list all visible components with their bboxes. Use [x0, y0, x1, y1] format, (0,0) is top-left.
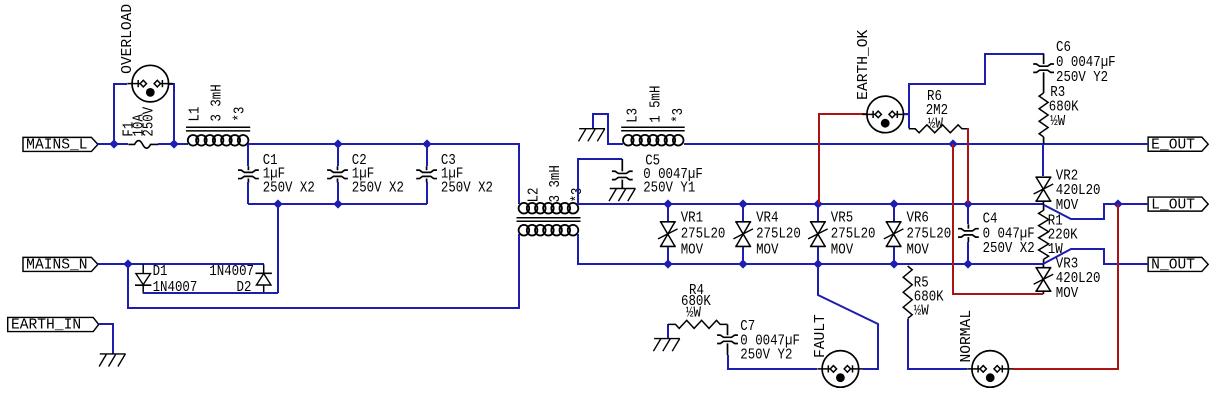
inductor L1 winding: [188, 135, 249, 146]
junction at F1 left: [109, 139, 118, 148]
label C6 rating: [1056, 70, 1108, 86]
junction N rail x817: [813, 259, 822, 268]
svg-text:L2: L2: [527, 187, 543, 202]
svg-text:3 3mH: 3 3mH: [548, 165, 564, 202]
label VR2 type: [1056, 198, 1079, 214]
label R1 rating: [1048, 242, 1063, 258]
junction L rail x968: [963, 199, 972, 208]
svg-text:NORMAL: NORMAL: [959, 310, 975, 363]
label C2 value: [352, 166, 374, 182]
neon lamp FAULT: [817, 351, 863, 388]
label C2: [352, 153, 367, 169]
label VR3 type: [1056, 286, 1079, 302]
label VR5: [831, 211, 853, 227]
svg-text:VR1: VR1: [681, 211, 703, 227]
label F1: [121, 122, 137, 137]
label R5 rating: [914, 303, 929, 319]
junction L rail x743: [738, 199, 747, 208]
svg-text:½W: ½W: [914, 303, 929, 319]
inductor L1 core: [186, 127, 250, 131]
svg-text:L1: L1: [188, 107, 204, 122]
wire to L_OUT: [1044, 204, 1148, 219]
svg-text:250V Y2: 250V Y2: [1056, 70, 1108, 86]
label R1 value: [1048, 227, 1078, 243]
varistor VR5: [808, 204, 828, 264]
inductor L3 winding: [623, 135, 684, 146]
svg-text:D1: D1: [153, 264, 168, 280]
svg-text:VR6: VR6: [907, 211, 929, 227]
label L2 *3: [570, 187, 586, 202]
label C6 value: [1056, 55, 1116, 71]
svg-text:250V X2: 250V X2: [983, 241, 1035, 257]
svg-text:FAULT: FAULT: [813, 314, 829, 358]
diode D1: [135, 264, 151, 293]
wire MAINS_N to L2 bottom: [128, 234, 519, 308]
label VR6: [907, 211, 929, 227]
svg-text:*3: *3: [671, 108, 687, 123]
ground under C5: [609, 189, 636, 202]
svg-text:275L20: 275L20: [681, 227, 726, 243]
label D1 value: [153, 280, 198, 296]
wire EARTH_OK red left: [819, 114, 867, 204]
wire FAULT lamp to N rail: [818, 264, 878, 369]
svg-text:EARTH_IN: EARTH_IN: [11, 318, 81, 334]
wire fuse to L1: [158, 143, 188, 145]
svg-text:275L20: 275L20: [907, 227, 952, 243]
label C1: [263, 153, 278, 169]
svg-text:MOV: MOV: [1056, 198, 1079, 214]
wire R4 to ground: [667, 324, 669, 339]
wire MAINS_L to fuse: [98, 143, 128, 145]
label R1: [1048, 213, 1063, 229]
inductor L3 core: [621, 127, 685, 131]
resistor R4: [668, 320, 727, 328]
label NORMAL: [959, 310, 975, 363]
wire cap rail to diode rail: [277, 204, 279, 293]
fuse F1: [128, 141, 158, 149]
svg-text:250V Y1: 250V Y1: [643, 180, 695, 196]
junction at C2 top: [333, 139, 342, 148]
label R3 rating: [1050, 114, 1065, 130]
svg-text:MOV: MOV: [681, 242, 704, 258]
varistor VR3: [1034, 264, 1054, 294]
junction N rail x893: [889, 259, 898, 268]
label R4 rating: [686, 305, 701, 321]
svg-text:½W: ½W: [1050, 114, 1065, 130]
wire E rail: [684, 143, 1148, 145]
label VR5 type: [831, 242, 854, 258]
label VR6 type: [907, 242, 930, 258]
junction L_OUT red tap: [1113, 199, 1122, 208]
capacitor C4: [958, 204, 979, 264]
label D2 value: [209, 264, 254, 280]
capacitor C2: [327, 144, 348, 204]
diode D2: [256, 264, 272, 293]
port MAINS_L: [23, 137, 98, 153]
svg-text:VR4: VR4: [756, 211, 778, 227]
label C5: [645, 153, 660, 169]
label C7: [740, 319, 755, 335]
junction E rail red tap: [948, 139, 957, 148]
junction at C2 bottom: [333, 199, 342, 208]
junction N rail x743: [738, 259, 747, 268]
label VR1: [681, 211, 703, 227]
label L1 3 3mH: [210, 84, 226, 121]
svg-text:MOV: MOV: [1056, 286, 1079, 302]
svg-text:MAINS_N: MAINS_N: [26, 257, 87, 273]
label VR4: [756, 211, 778, 227]
wire to C6: [909, 54, 1044, 128]
label C7 rating: [740, 348, 792, 364]
svg-text:*3: *3: [233, 107, 249, 122]
wire overload lamp left leg: [114, 84, 127, 144]
resistor R6: [909, 125, 969, 133]
wire EARTH_OK right up: [904, 113, 909, 115]
svg-text:250V Y2: 250V Y2: [740, 348, 792, 364]
wire diode bottom rail: [143, 292, 278, 294]
label VR4 value: [756, 227, 801, 243]
svg-text:0 0047µF: 0 0047µF: [1056, 55, 1116, 71]
wire N rail: [578, 234, 1043, 264]
label VR2 value: [1056, 183, 1101, 199]
svg-text:0 047µF: 0 047µF: [983, 226, 1035, 242]
label L3 1 5mH: [648, 86, 664, 123]
svg-text:EARTH_OK: EARTH_OK: [856, 29, 872, 99]
svg-text:275L20: 275L20: [831, 227, 876, 243]
label L3: [625, 108, 641, 123]
label C3: [441, 153, 456, 169]
svg-text:250V X2: 250V X2: [441, 181, 493, 197]
svg-text:275L20: 275L20: [756, 227, 801, 243]
svg-text:420L20: 420L20: [1056, 183, 1101, 199]
ground at R4: [653, 339, 680, 352]
svg-text:1 5mH: 1 5mH: [648, 86, 664, 123]
label C3 value: [441, 166, 463, 182]
svg-text:L_OUT: L_OUT: [1151, 197, 1195, 213]
junction at C3 top: [422, 139, 431, 148]
label C4 value: [983, 226, 1035, 242]
label L1 *3: [233, 107, 249, 122]
svg-text:3 3mH: 3 3mH: [210, 84, 226, 121]
label L1: [188, 107, 204, 122]
neon lamp NORMAL: [967, 351, 1013, 388]
svg-text:½W: ½W: [686, 305, 701, 321]
label R6 rating: [928, 117, 943, 133]
svg-text:R3: R3: [1050, 85, 1065, 101]
port E_OUT: [1148, 137, 1208, 153]
svg-text:N_OUT: N_OUT: [1151, 257, 1195, 273]
label FAULT: [813, 314, 829, 358]
svg-text:MOV: MOV: [831, 242, 854, 258]
label C3 rating: [441, 181, 493, 197]
junction at F1 right: [169, 139, 178, 148]
svg-text:MAINS_L: MAINS_L: [26, 137, 87, 153]
junction N rail x667: [663, 259, 672, 268]
svg-text:250V X2: 250V X2: [352, 181, 404, 197]
inductor L2 top winding: [519, 203, 579, 214]
label F1 250V: [142, 106, 158, 136]
label C1 rating: [263, 181, 315, 197]
wire EARTH_IN to ground: [99, 324, 113, 354]
port MAINS_N: [23, 257, 98, 273]
svg-text:420L20: 420L20: [1056, 271, 1101, 287]
junction L rail x817: [813, 199, 822, 208]
label C4 rating: [983, 241, 1035, 257]
label D2: [237, 280, 252, 296]
svg-text:VR5: VR5: [831, 211, 853, 227]
label C5 value: [643, 167, 703, 183]
label R6: [927, 89, 942, 105]
capacitor C7: [717, 325, 738, 356]
port N_OUT: [1148, 257, 1208, 273]
label C6: [1056, 40, 1071, 56]
resistor R5: [903, 266, 912, 319]
label VR2: [1056, 169, 1078, 185]
wire NORMAL to L_OUT red: [1013, 204, 1118, 369]
svg-text:680K: 680K: [1049, 100, 1079, 116]
svg-text:1N4007: 1N4007: [209, 264, 254, 280]
svg-text:MOV: MOV: [756, 242, 779, 258]
label C5 rating: [643, 180, 695, 196]
port EARTH_IN: [8, 317, 99, 333]
label VR6 value: [907, 227, 952, 243]
wire L rail: [578, 203, 1043, 205]
label C1 value: [263, 166, 285, 182]
wire ground to L3: [593, 114, 623, 144]
label L2: [527, 187, 543, 202]
wire L1 to L2: [248, 144, 519, 204]
label VR3: [1056, 257, 1078, 273]
varistor VR2: [1034, 144, 1054, 205]
wire overload lamp right leg: [169, 84, 174, 144]
wire MAINS_N to diodes: [98, 263, 264, 265]
wire R5 to NORMAL lamp: [908, 319, 967, 369]
label R5: [914, 275, 929, 291]
label C7 value: [740, 333, 800, 349]
junction N rail x968: [963, 259, 972, 268]
wire to N_OUT: [1043, 249, 1148, 264]
svg-text:C6: C6: [1056, 40, 1071, 56]
junction at cap rail branch: [273, 199, 282, 208]
wire R6 to L rail red: [967, 128, 969, 204]
label VR1 value: [681, 227, 726, 243]
label C2 rating: [352, 181, 404, 197]
svg-text:E_OUT: E_OUT: [1151, 137, 1195, 153]
label VR4 type: [756, 242, 779, 258]
svg-text:250V X2: 250V X2: [263, 181, 315, 197]
capacitor C3: [416, 144, 437, 204]
varistor VR1: [658, 204, 678, 264]
capacitor C6: [1033, 54, 1054, 82]
label R3 value: [1049, 100, 1079, 116]
label VR1 type: [681, 242, 704, 258]
varistor VR4: [733, 204, 753, 264]
wire E to VR3 red: [953, 144, 1043, 294]
capacitor C5: [612, 159, 633, 189]
wire C7 to FAULT lamp: [728, 355, 817, 369]
resistor R1: [1039, 205, 1049, 264]
label C4: [983, 211, 998, 227]
wire C5 branch: [578, 159, 622, 204]
capacitor C1: [238, 144, 259, 204]
label D1: [153, 264, 168, 280]
label R5 value: [914, 289, 944, 305]
neon lamp OVERLOAD: [127, 65, 173, 102]
inductor L2 bottom winding: [519, 225, 579, 236]
port L_OUT: [1148, 197, 1208, 213]
label R4: [689, 283, 704, 299]
junction MAINS_N: [123, 259, 132, 268]
label R4 value: [681, 294, 711, 310]
resistor R3: [1039, 82, 1048, 144]
ground at L3: [579, 129, 606, 142]
label L3 *3: [671, 108, 687, 123]
label F1 10A: [132, 114, 148, 137]
label R6 value: [926, 103, 948, 119]
label EARTH_OK: [856, 29, 872, 99]
svg-text:250V: 250V: [142, 106, 158, 136]
neon lamp EARTH_OK: [862, 96, 908, 133]
svg-text:L3: L3: [625, 108, 641, 123]
svg-text:MOV: MOV: [907, 242, 930, 258]
label VR5 value: [831, 227, 876, 243]
svg-text:C4: C4: [983, 211, 998, 227]
label R3: [1050, 85, 1065, 101]
svg-text:½W: ½W: [928, 117, 943, 133]
label VR3 value: [1056, 271, 1101, 287]
junction L rail x667: [663, 199, 672, 208]
inductor L2 core: [517, 218, 581, 222]
junction L rail x893: [889, 199, 898, 208]
label L2 3 3mH: [548, 165, 564, 202]
varistor VR6: [884, 204, 904, 264]
svg-text:OVERLOAD: OVERLOAD: [120, 4, 136, 74]
wire cap bottom rail: [248, 203, 427, 205]
ground at EARTH_IN: [99, 354, 126, 367]
label OVERLOAD: [120, 4, 136, 74]
